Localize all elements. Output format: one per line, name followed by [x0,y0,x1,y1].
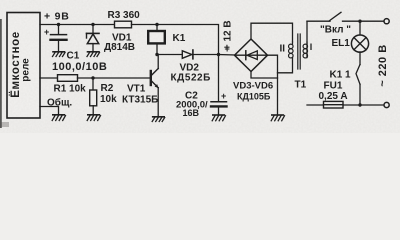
wire: K1 to collector node [156,43,158,54]
bridge rectifier VD3-VD6 [235,39,268,72]
wire: R1 to divider node [78,77,94,79]
relay coil K1 [148,31,165,43]
scan artifact: left edge streaks [0,19,2,128]
switch "Vkl" [329,12,341,21]
node: lamp tap [358,20,361,23]
wire: winding I top lead to switch [306,21,308,57]
wire: common (Obshch.) to ground [40,107,59,115]
terminal (top) [384,19,389,24]
wire: K1 top lead [156,25,158,32]
relay contact K1.1 [356,65,360,85]
ground (C1) [53,52,66,57]
wire: to mains terminal (bottom) [360,104,384,106]
wire: bridge right (minus) down to ground [268,55,278,115]
wire: C2 top lead [218,55,220,102]
terminal (bottom) [384,102,389,107]
capacitor C2 [211,101,227,103]
wire: emitter lead [157,88,159,117]
transformer T1 winding II [292,42,294,45]
wire: bridge bottom to minus rail [251,72,278,79]
transistor VT1 [150,71,152,85]
wire: bottom rail with fuse [307,104,360,106]
transformer T1 core [297,34,299,69]
capacitor C1 [51,34,67,36]
wire: VD2 cathode to +12V node [193,54,218,56]
ground (C2) [212,115,225,121]
wire: node to VD2 anode [157,54,182,56]
wire: R2 bottom lead [92,106,94,115]
wire: junction to bridge [219,54,236,57]
ground (common) [52,115,65,121]
ground (bridge minus) [271,115,284,121]
node: C1 tap [57,23,60,26]
wire: +9V rail from box to R3 [40,24,115,26]
wire: winding II bottom lead [278,58,293,73]
wire: EL1 top lead [359,21,361,35]
ground (R2) [87,115,100,121]
resistor R1 [58,75,78,82]
wire: EL1 to contact K1.1 [359,52,361,65]
transformer T1 winding I [306,42,308,45]
node: VD1 tap [91,23,94,26]
wire: bridge top to winding II top [251,23,293,42]
fuse FU1 [324,101,344,108]
transistor VT1 emitter [151,81,158,88]
ground (VD1) [87,52,100,57]
zener diode VD1 [87,32,100,34]
resistor R3 [115,21,132,28]
wire: R2 top lead [92,78,94,90]
node: bottom terminal tap [358,103,361,106]
wire: collector lead [157,55,159,69]
ground (VT1 emitter) [152,117,165,122]
node: +12V / C2 / bridge junction [217,53,220,56]
resistor R2 [90,90,97,106]
wire: R3 to +12V corner [132,25,219,56]
wire: to mains terminal (top) [360,20,384,22]
block: capacitive relay box [7,13,40,119]
node: base divider junction [91,76,94,79]
lamp EL1 [351,35,368,52]
node: collector / VD2 junction [155,53,158,56]
wire: contact to bottom rail [359,84,361,105]
node: K1 tap [155,23,158,26]
wire: C1 top lead [58,25,60,35]
wire: VD1 top lead [92,25,94,34]
wire: to base [93,77,150,79]
wire: box to R1 [40,77,58,79]
diode VD2 [182,51,192,59]
